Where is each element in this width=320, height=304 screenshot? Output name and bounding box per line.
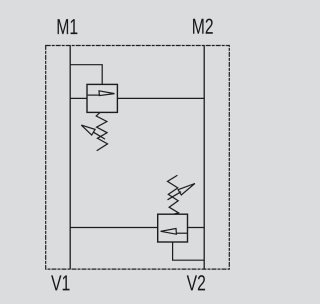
spring valve 1 (96, 112, 107, 150)
spring valve 2 (168, 175, 179, 214)
label M1 (58, 19, 78, 34)
wire left port valve 1 (70, 97, 87, 99)
label V1 (51, 275, 69, 290)
wire right port valve 1 (117, 97, 204, 99)
adjustment arrow valve 2 (168, 184, 195, 200)
wire right port valve 2 (188, 227, 205, 229)
wire pilot line valve 1 (70, 65, 102, 85)
dashed enclosure border (46, 46, 230, 270)
relief valve 2 body (158, 214, 188, 242)
relief valve 2 flow arrow (161, 229, 187, 235)
relief valve 1 flow arrow (88, 91, 115, 96)
relief valve 1 body (87, 84, 117, 112)
wire M2-V2 vertical line (203, 46, 205, 270)
adjustment arrow valve 1 (81, 125, 105, 139)
wire pilot line valve 2 (173, 242, 205, 260)
wire M1-V1 vertical line (69, 46, 71, 270)
label M2 (193, 19, 213, 34)
wire left port valve 2 (70, 227, 158, 229)
label V2 (187, 275, 205, 290)
